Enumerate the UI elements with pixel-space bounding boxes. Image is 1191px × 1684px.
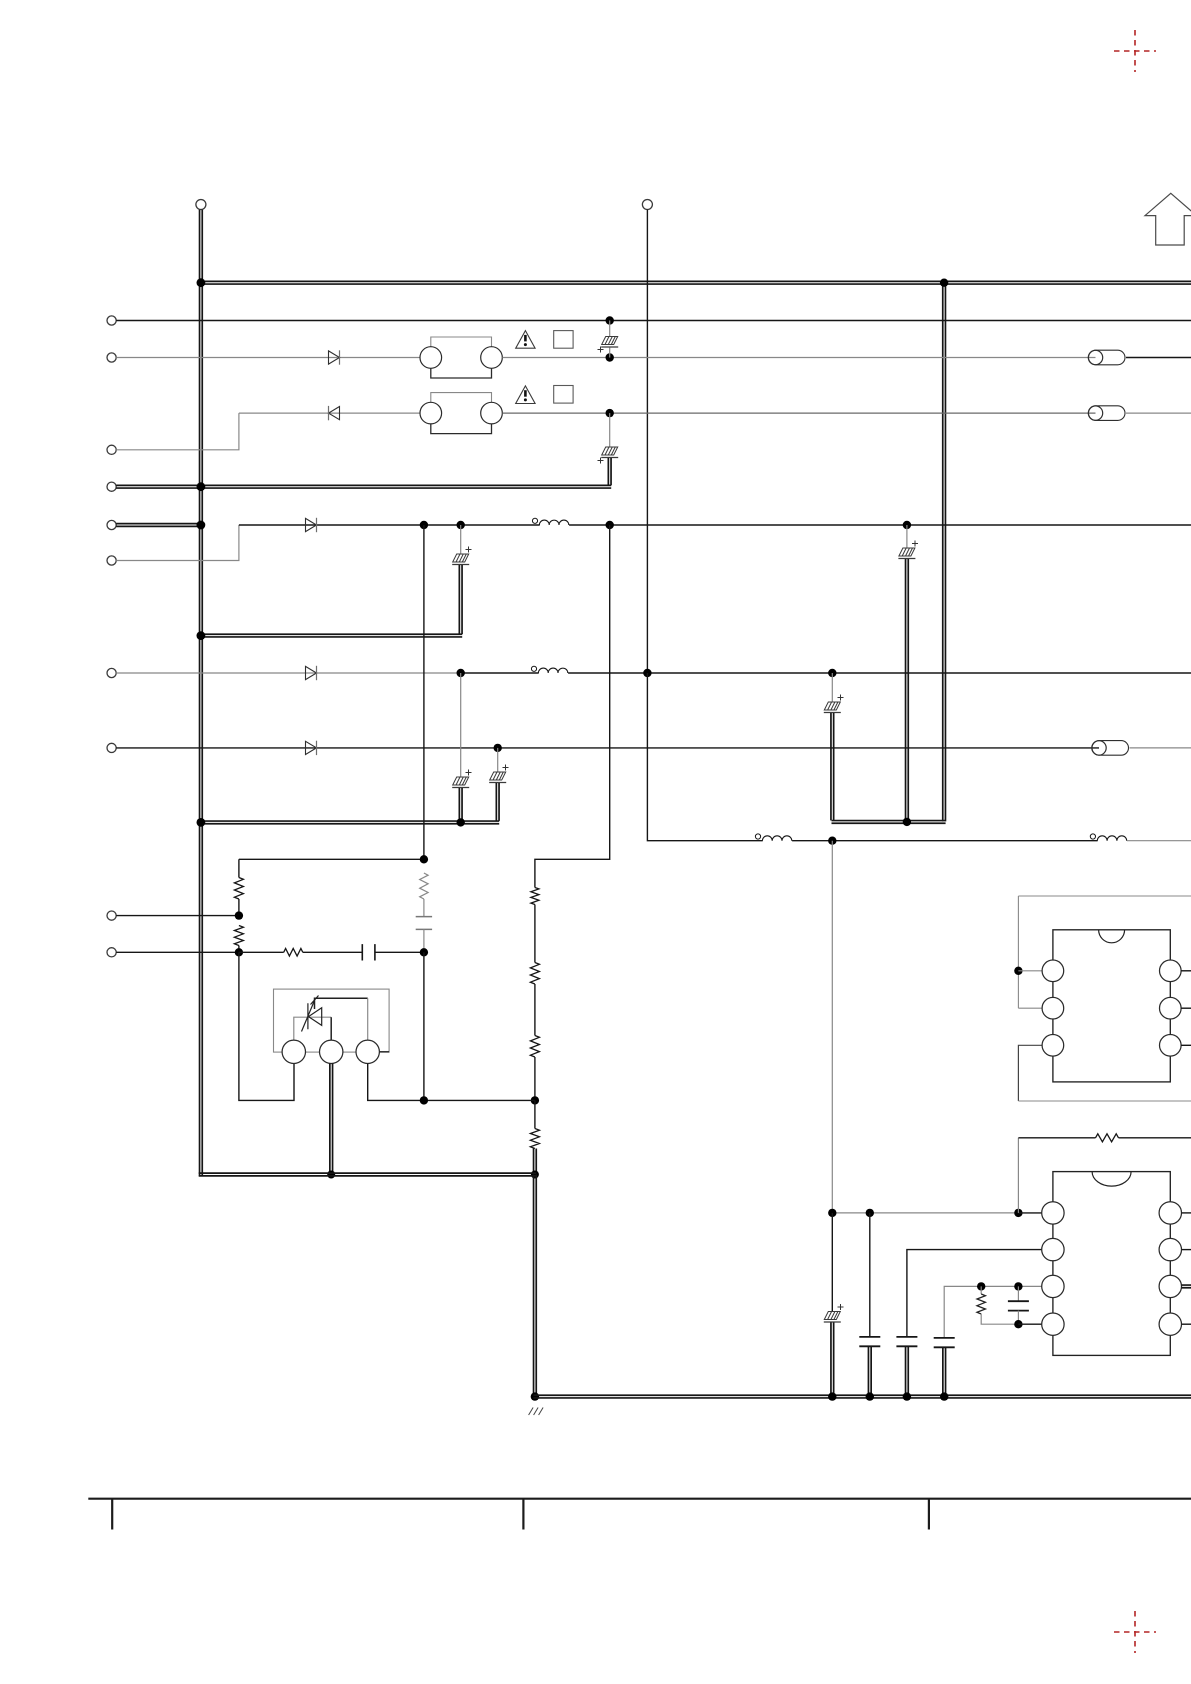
- wire: reg internal ref (grey): [294, 1017, 331, 1040]
- wire: reg internal cathode (black): [315, 998, 368, 1009]
- wire: R9 bottom elbow (grey): [981, 1314, 1018, 1324]
- junction pin4row/x1018: [1014, 1320, 1022, 1328]
- resistor R5: [531, 888, 539, 905]
- wire: IC1 pin6 lead: [1181, 1044, 1191, 1046]
- junction on row N3: [606, 409, 614, 417]
- terminal T1: [107, 316, 116, 325]
- wire: reg pin3 to node row: [368, 1064, 535, 1101]
- wire: C6 top lead (grey): [831, 673, 833, 702]
- capacitor C6 (electrolytic): [824, 702, 840, 710]
- junction pinA/x870: [866, 1209, 874, 1217]
- wire: heavy return rail A (double): [199, 634, 463, 637]
- IC2 pin 4: [1042, 1313, 1064, 1335]
- wire: row N5 (y=525) right: [569, 524, 1191, 526]
- wire: row N7: [116, 747, 1099, 749]
- junction N6/x832: [828, 669, 836, 677]
- reg pin 2: [320, 1040, 343, 1063]
- wire: x647 vertical to row N8: [647, 673, 655, 841]
- wire: IC1 wrap bottom (grey): [1018, 1100, 1191, 1102]
- resistor R8: [530, 1129, 539, 1149]
- wire: row N7 far right (grey): [1130, 747, 1191, 749]
- divider tick 1: [111, 1499, 113, 1530]
- wire: right bus lower arm (double, to C column): [832, 821, 946, 824]
- diode D1: [329, 351, 340, 364]
- junction N5/x610: [606, 521, 614, 529]
- fuse F2: [1089, 406, 1126, 421]
- registration crosshair top-right: [1114, 30, 1156, 72]
- wire: heavy bottom arm (double): [199, 1173, 537, 1176]
- wire: left vertical bus (double): [200, 210, 203, 1176]
- junction: T4 rail / left bus: [197, 482, 206, 491]
- IC1 pin 3: [1042, 1035, 1064, 1057]
- safety square (J2): [554, 386, 573, 404]
- wire: x424 vertical (952 to 1100): [423, 952, 425, 1100]
- junction: rail A / left bus: [197, 631, 206, 640]
- wire: C11 bottom lead (double): [868, 1346, 871, 1396]
- junction on row N2: [606, 353, 614, 361]
- wire: T5 heavy stub (double): [116, 524, 199, 527]
- wire: C2 top lead (grey): [609, 413, 611, 446]
- wire: reg internal right (grey): [367, 998, 369, 1040]
- wire: IC1 wrap top (grey): [1018, 895, 1191, 897]
- junction T10 node: [235, 948, 243, 956]
- wire: row R10 right: [1119, 1137, 1191, 1139]
- junction chain/heavy row: [531, 1171, 539, 1179]
- divider tick 3: [928, 1499, 930, 1530]
- junction x424/row952: [420, 948, 428, 956]
- shunt reference U3 symbol: [302, 996, 322, 1032]
- capacitor C12: [896, 1337, 917, 1346]
- capacitor C10 (electrolytic): [824, 1312, 840, 1320]
- junction N8/x832: [828, 837, 836, 845]
- diode D4: [306, 666, 317, 679]
- capacitor C5 (electrolytic): [490, 772, 506, 780]
- junction T9 node: [235, 911, 243, 919]
- IC1 pin 1: [1042, 960, 1064, 982]
- capacitor C4 (electrolytic): [453, 777, 469, 785]
- wire: top horizontal bus (double): [199, 281, 1191, 284]
- junction C12/ground rail: [903, 1392, 911, 1400]
- IC2 pin 3: [1042, 1275, 1064, 1297]
- junction N5/x461: [457, 521, 465, 529]
- wire: C10 bottom lead (double): [831, 1323, 834, 1397]
- junction IC1 pin1 node: [1014, 967, 1022, 975]
- terminal T7: [107, 668, 116, 677]
- wire: row N2 mid (grey): [502, 357, 1095, 359]
- junction: T5 / left bus: [197, 521, 206, 530]
- wire: C2 bottom lead (double): [608, 458, 611, 485]
- safety square (J1): [554, 331, 573, 349]
- capacitor C11: [859, 1337, 880, 1346]
- wire: vertical from top-middle post: [646, 210, 648, 673]
- junction pin3row/x1018: [1014, 1282, 1022, 1290]
- ground symbol: [529, 1408, 544, 1416]
- inductor L1: [532, 518, 537, 523]
- junction N6/x647: [643, 669, 651, 677]
- wire: reg pin2 heavy lead (double): [330, 1064, 333, 1175]
- terminal T5: [107, 520, 116, 529]
- resistor R7: [530, 1036, 539, 1058]
- IC2 pin 1: [1042, 1202, 1064, 1224]
- wire: row R10 left: [1018, 1137, 1095, 1139]
- wire: row N6 right: [568, 672, 1191, 674]
- fuse F3: [1092, 741, 1129, 756]
- IC2 pin 7: [1159, 1238, 1181, 1260]
- resistor R2: [234, 878, 243, 900]
- junction C11/ground rail: [866, 1392, 874, 1400]
- resistor R3: [234, 926, 243, 946]
- wire: row node-B segment: [535, 525, 610, 888]
- junction row1100/x424: [420, 1096, 428, 1104]
- capacitor C2 (electrolytic): [602, 447, 618, 455]
- wire: row N8 far right (grey): [1127, 840, 1191, 842]
- junction: top bus / right bus: [940, 279, 948, 287]
- resistor R4: [284, 949, 303, 957]
- wire: C5 top lead (grey): [497, 748, 499, 772]
- wire: C9 to node: [375, 951, 424, 953]
- wire: C4 bottom lead (double): [459, 788, 462, 822]
- wire: R5-R6 link: [534, 905, 536, 963]
- reg pin 1: [282, 1040, 305, 1063]
- fuse F1: [1089, 350, 1126, 365]
- wire: IC2 pin3 route (grey): [944, 1286, 1042, 1338]
- IC2 pin 5: [1159, 1313, 1181, 1335]
- capacitor C9: [362, 944, 375, 960]
- junction pin3row/x981: [977, 1282, 985, 1290]
- wire: R7 to node row: [534, 1057, 536, 1100]
- wire: row N3 left (grey): [239, 412, 420, 414]
- wire: C8 lower lead (grey): [423, 929, 425, 952]
- terminal T3: [107, 445, 116, 454]
- terminal post top-left: [196, 200, 206, 210]
- wire: row N2 right: [1126, 357, 1191, 359]
- diode D2 (reversed): [329, 407, 340, 420]
- wire: R4 to C9: [303, 951, 363, 953]
- regulator outline box: [274, 989, 390, 1052]
- terminal post top-middle: [642, 200, 652, 210]
- wire: R3 lower link: [238, 946, 240, 953]
- junction N5/x424: [420, 521, 428, 529]
- capacitor C3 (electrolytic): [453, 554, 469, 562]
- wire: C5 bottom lead (double): [496, 783, 499, 821]
- IC1 notch: [1099, 930, 1125, 943]
- sheet-link arrow: [1145, 193, 1191, 245]
- wire: row node-A left segment: [239, 858, 424, 860]
- IC1 pin 7: [1160, 997, 1182, 1019]
- wire: pin4 stub: [1018, 1323, 1042, 1325]
- wire: row N6 left (grey): [116, 672, 461, 674]
- wire: T9 row: [116, 915, 239, 917]
- wire: row N5 (y=525) left: [239, 524, 540, 526]
- reg pin 3: [356, 1040, 379, 1063]
- wire: heavy return rail B (double): [199, 821, 500, 824]
- wire: IC1 pin2 lead (grey): [1018, 1007, 1042, 1009]
- inductor L3: [755, 834, 760, 839]
- wire: row N6 mid: [461, 672, 539, 674]
- wire: IC1 pin1 lead (grey): [1018, 970, 1042, 972]
- wire: T10 leg down: [239, 952, 294, 1100]
- wire: C3 top lead (grey): [460, 525, 462, 554]
- wire: C14 top lead (grey): [1017, 1286, 1019, 1301]
- wire: C1 top lead (grey): [609, 321, 611, 337]
- terminal T6: [107, 556, 116, 565]
- junction C10/ground rail: [828, 1392, 836, 1400]
- junction chain/ground rail: [531, 1392, 539, 1400]
- wire: x424 vertical (N5 to node row): [423, 525, 425, 859]
- resistor R6: [530, 963, 539, 985]
- wire: row N8 (y=840.7) a: [655, 840, 763, 842]
- wire: T3 leg (grey): [116, 413, 239, 450]
- resistor R1: [420, 873, 428, 899]
- wire: IC2 pin7 lead: [1182, 1249, 1191, 1251]
- wire: C3 bottom lead (double): [459, 565, 462, 634]
- wire: R9 top lead (grey): [980, 1286, 982, 1294]
- wire: IC2 pin5 lead: [1182, 1323, 1191, 1325]
- wire: row N8 (y=840.7) b: [792, 840, 1098, 842]
- wire: C11 top lead: [869, 1213, 871, 1337]
- junction N7/x498: [494, 744, 502, 752]
- wire: T10 row to R4: [239, 951, 284, 953]
- wire: x832 drop (grey): [831, 841, 833, 1213]
- inductor L4: [1090, 834, 1095, 839]
- junction: rail B / left bus: [197, 818, 206, 827]
- capacitor C8: [416, 917, 432, 930]
- wire: row N1 (y=320.5): [116, 320, 1191, 322]
- wire: R6-R7 link: [534, 984, 536, 1036]
- wire: C1 bottom lead: [609, 348, 611, 358]
- wire: IC1 wrap left (grey): [1017, 896, 1019, 1008]
- junction node-A: [420, 855, 428, 863]
- resistor R9: [977, 1294, 985, 1314]
- IC2 pin 8: [1159, 1202, 1181, 1224]
- IC1 pin 8: [1160, 960, 1182, 982]
- wire: C13 bottom lead (double): [943, 1347, 946, 1396]
- wire: T6 leg (grey): [116, 525, 239, 561]
- wire: IC2 pin8 lead: [1182, 1212, 1191, 1214]
- wire: x1018 drop (grey): [1017, 1138, 1019, 1213]
- diode D5: [306, 741, 317, 754]
- IC2 pin 2: [1042, 1238, 1064, 1260]
- wire: reg internal anode (black): [330, 1017, 332, 1040]
- IC2 pin 6: [1159, 1275, 1181, 1297]
- IC2 notch: [1092, 1172, 1131, 1187]
- jumper link J1: [431, 337, 492, 347]
- wire: C12 bottom lead (double): [906, 1346, 909, 1396]
- capacitor C13: [934, 1338, 955, 1347]
- terminal T9: [107, 911, 116, 920]
- IC1 pin 6: [1160, 1035, 1182, 1057]
- wire: C4 top lead (grey): [460, 673, 462, 777]
- junction C13/ground rail: [940, 1392, 948, 1400]
- capacitor C1 (electrolytic): [602, 337, 618, 345]
- wire: ground rail (double): [533, 1395, 1191, 1398]
- op-amp IC1 body: [1053, 930, 1170, 1082]
- wire: right vertical bus (double): [943, 281, 946, 821]
- junction N5/x907: [903, 521, 911, 529]
- junction: rail B / C4 column: [457, 818, 465, 826]
- wire: node-A down leg: [238, 859, 240, 877]
- junction N6/x461: [457, 669, 465, 677]
- wire: C7 top lead (grey): [906, 525, 908, 548]
- registration crosshair bottom-right: [1114, 1611, 1156, 1653]
- wire: T4 heavy rail (double): [116, 485, 611, 488]
- warning triangle (J2): [516, 386, 535, 404]
- diode D3: [306, 518, 317, 531]
- junction reg pin2 / heavy row: [327, 1171, 335, 1179]
- wire: C14 bottom lead (grey): [1017, 1311, 1019, 1325]
- warning triangle (J1): [516, 331, 535, 349]
- wire: row N2 left (grey): [116, 357, 420, 359]
- wire: chain link: [534, 1100, 536, 1128]
- wire: reg pin3 to box edge: [379, 1051, 389, 1053]
- wire: R2-T9 link: [238, 899, 240, 916]
- wire: R8 bottom (double): [534, 1149, 537, 1175]
- wire: T10 row: [116, 951, 239, 953]
- wire: IC2 pin6 lead (double): [1182, 1285, 1191, 1288]
- wire: IC2 pin2 route: [907, 1250, 1042, 1337]
- terminal T4: [107, 482, 116, 491]
- terminal T2: [107, 353, 116, 362]
- junction pinA/x1018: [1014, 1209, 1022, 1217]
- junction on row N1: [606, 316, 614, 324]
- wire: pinA stub to IC2: [1018, 1212, 1042, 1214]
- junction: C7 column / heavy arm: [903, 818, 911, 826]
- junction: left bus / top bus: [197, 278, 206, 287]
- wire: IC1 pin3 route: [1018, 1045, 1042, 1101]
- capacitor C7 (electrolytic): [899, 548, 915, 556]
- divider tick 2: [522, 1499, 524, 1530]
- capacitor C14: [1008, 1301, 1029, 1310]
- wire: row pinA (grey): [832, 1212, 1018, 1214]
- wire: C7 bottom lead (double): [906, 559, 909, 822]
- IC1 pin 2: [1042, 997, 1064, 1019]
- wire: C6 bottom lead (double): [831, 713, 834, 820]
- wire: R1-C8 link (grey): [423, 899, 425, 917]
- wire: row N3 far right (grey): [1126, 412, 1191, 414]
- jumper link J2: [431, 393, 492, 403]
- wire: IC1 pin8 lead: [1181, 970, 1191, 972]
- terminal T8: [107, 743, 116, 752]
- wire: C10 top lead: [831, 1213, 833, 1311]
- junction pinA/x832: [828, 1209, 836, 1217]
- wire: chain to ground rail (double): [534, 1175, 537, 1397]
- resistor R10: [1096, 1134, 1119, 1142]
- op-amp IC2 body: [1053, 1172, 1170, 1356]
- section divider line: [88, 1498, 1191, 1500]
- junction chain/row1100: [531, 1096, 539, 1104]
- terminal T10: [107, 948, 116, 957]
- inductor L2: [531, 666, 536, 671]
- wire: row N3 right: [502, 412, 1095, 414]
- wire: IC1 pin7 lead: [1181, 1007, 1191, 1009]
